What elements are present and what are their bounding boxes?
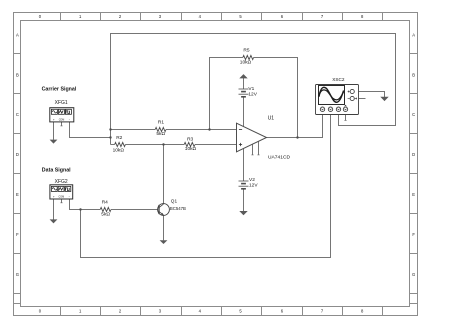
svg-text:F: F — [16, 232, 19, 237]
svg-text:G: G — [412, 272, 415, 277]
svg-text:R4: R4 — [102, 200, 108, 206]
svg-text:C: C — [16, 112, 19, 117]
svg-text:10kΩ: 10kΩ — [185, 146, 197, 152]
svg-text:12V: 12V — [249, 182, 258, 188]
svg-text:G: G — [16, 272, 19, 277]
svg-text:R3: R3 — [187, 137, 193, 143]
svg-text:5kΩ: 5kΩ — [156, 131, 165, 137]
svg-text:COM: COM — [59, 196, 65, 199]
svg-text:10kΩ: 10kΩ — [240, 60, 252, 66]
svg-text:A: A — [412, 33, 415, 38]
svg-text:R5: R5 — [243, 47, 249, 53]
svg-text:C: C — [412, 112, 415, 117]
svg-text:U1: U1 — [268, 116, 275, 122]
svg-text:XFG1: XFG1 — [55, 100, 68, 106]
svg-text:B: B — [412, 72, 415, 77]
svg-text:Q1: Q1 — [171, 199, 178, 204]
svg-text:R2: R2 — [116, 135, 122, 141]
svg-text:10kΩ: 10kΩ — [113, 148, 125, 154]
svg-text:A: A — [16, 33, 19, 38]
svg-text:COM: COM — [59, 118, 65, 121]
svg-text:Data Signal: Data Signal — [42, 168, 71, 174]
svg-text:E: E — [412, 192, 415, 197]
svg-text:F: F — [412, 232, 415, 237]
svg-text:12V: 12V — [248, 91, 257, 97]
svg-text:E: E — [16, 192, 19, 197]
svg-text:UA741CD: UA741CD — [268, 154, 290, 160]
svg-text:5kΩ: 5kΩ — [101, 212, 110, 218]
svg-text:D: D — [16, 152, 19, 157]
svg-text:XSC2: XSC2 — [332, 77, 345, 82]
svg-text:V2: V2 — [249, 177, 255, 183]
svg-text:D: D — [412, 152, 415, 157]
svg-text:+: + — [53, 195, 55, 199]
svg-text:XFG2: XFG2 — [55, 179, 68, 185]
svg-text:Carrier Signal: Carrier Signal — [42, 86, 77, 92]
svg-text:+: + — [53, 117, 55, 121]
svg-text:B: B — [16, 72, 19, 77]
svg-text:R1: R1 — [158, 120, 164, 126]
svg-text:BC547B: BC547B — [170, 206, 186, 211]
svg-text:V1: V1 — [248, 86, 254, 92]
